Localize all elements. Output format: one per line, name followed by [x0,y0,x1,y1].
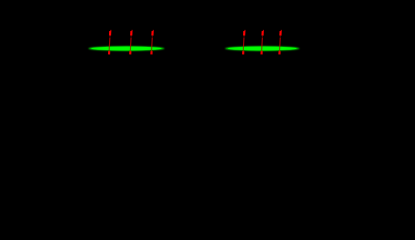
arrow R3 shaft [279,38,281,46]
arrow L3 shaft below disk [151,50,152,51]
spin arrow L3 (tilted slightly right at top) [150,30,153,55]
spin arrow L1 (tilted slightly right at top) [108,30,111,55]
arrow L2 shaft below disk [130,50,131,51]
arrow R2 shaft below disk [261,50,262,51]
arrow R3 tail blob [278,51,280,54]
arrow L1 shaft crossing disk [109,46,110,50]
spin arrow L2 (tilted slightly right at top) [129,30,132,55]
arrow L1 tip nub [110,30,111,32]
arrow L2 tip nub [131,30,132,32]
arrow R3 shaft below disk [279,50,280,51]
arrow L2 head [130,31,132,36]
arrow L2 shaft dim segment [130,36,131,38]
arrow R2 tip nub [263,30,264,32]
arrow L3 shaft [151,38,153,46]
arrow R3 tip nub [281,30,282,32]
arrow L3 head [151,31,153,36]
right magnetic disk (green ellipse) [225,46,299,51]
arrow R1 shaft crossing disk [243,46,244,50]
arrow R2 shaft dim segment [262,36,263,38]
black background [0,0,415,152]
arrow L1 shaft below disk [109,50,110,51]
arrow L3 tail blob [150,51,152,54]
arrow R2 shaft crossing disk [261,46,262,50]
arrow L1 head [109,31,111,36]
arrow R1 shaft dim segment [243,36,244,38]
arrow R1 tail blob [242,51,244,54]
arrow R2 tail blob [260,51,262,54]
right disk bright core [228,47,297,51]
spin arrow R3 (tilted slightly right at top) [278,30,281,55]
arrow L2 shaft crossing disk [130,46,131,50]
arrow L1 shaft [109,38,111,46]
arrow L3 shaft dim segment [152,36,153,38]
left magnetic disk (green ellipse) [88,46,164,51]
arrow L1 tail blob [108,51,110,54]
arrow R1 head [243,31,245,36]
arrow R3 shaft dim segment [280,36,281,38]
spin arrow R1 (tilted slightly right at top) [242,30,245,55]
arrow L3 shaft crossing disk [151,46,152,50]
arrow R3 head [279,31,281,36]
arrow L2 shaft [130,38,132,46]
spin arrow R2 (tilted slightly right at top) [260,30,263,55]
arrow R3 shaft crossing disk [279,46,280,50]
arrow R2 head [261,31,263,36]
arrow R2 shaft [261,38,263,46]
arrow R1 shaft below disk [243,50,244,51]
arrow L1 shaft dim segment [109,36,110,38]
arrow R1 shaft [243,38,245,46]
arrow R1 tip nub [244,30,245,32]
left disk bright core [91,47,161,51]
arrow L2 tail blob [129,51,131,54]
arrow L3 tip nub [153,30,154,32]
